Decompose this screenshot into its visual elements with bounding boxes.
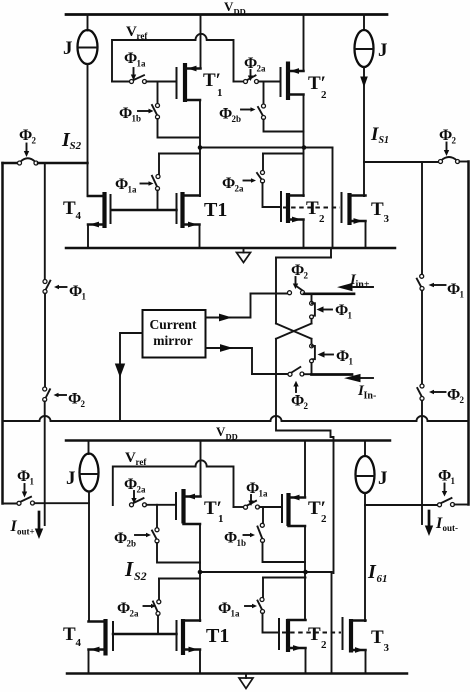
svg-text:J: J xyxy=(63,38,73,59)
svg-text:Φ: Φ xyxy=(219,106,232,123)
transistor T'2 bottom xyxy=(282,493,305,526)
label T2 xyxy=(306,198,325,225)
svg-text:Φ: Φ xyxy=(69,283,82,300)
wire cross network to bottom cell (jog at rail) xyxy=(276,374,334,573)
wire memory-node link left bottom xyxy=(159,578,200,580)
svg-text:V: V xyxy=(216,424,226,439)
svg-text:3: 3 xyxy=(384,642,390,654)
label phi_1b with arrow xyxy=(119,105,154,124)
switch phi_1 inner-right xyxy=(417,274,424,290)
label I_S2 bottom xyxy=(124,557,147,583)
switch phi_2a lower (T1/T4 gate sampling, bottom) xyxy=(153,579,161,635)
svg-text:J: J xyxy=(66,468,76,489)
label I_S1 top xyxy=(370,124,389,146)
svg-text:T: T xyxy=(308,624,321,645)
label phi_1b bottom with arrow xyxy=(224,530,255,549)
label T4 xyxy=(63,198,82,222)
label phi_2 inner-left with arrow xyxy=(54,391,86,410)
svg-text:out-: out- xyxy=(443,523,459,533)
svg-text:Φ: Φ xyxy=(19,127,32,144)
transistor T1 bottom xyxy=(177,619,201,674)
wire memory node bus (T'1 drain to output corner) xyxy=(200,147,333,149)
label I_in+ xyxy=(349,272,370,291)
transistor T2 bottom xyxy=(279,618,306,674)
output arrow I_out- xyxy=(425,511,433,536)
transistor T'1 bottom xyxy=(176,489,201,524)
wire gate bus T4-T1 xyxy=(111,209,177,212)
label phi_1 upper pass with arrow xyxy=(317,302,353,321)
label T'2 xyxy=(308,73,327,101)
wire I_in+ trunk xyxy=(304,292,354,295)
label V_ref top xyxy=(126,24,148,41)
ground symbol top cell xyxy=(237,248,251,263)
wire dashed T2 gate to T3 gate bottom xyxy=(282,632,341,634)
switch phi_1b (gate-drain, vertical) xyxy=(152,82,200,138)
transistor T'2 xyxy=(281,62,304,101)
svg-text:ref: ref xyxy=(136,457,148,467)
label phi_1 bottom-left with arrow xyxy=(17,468,35,498)
label phi_2 top-right with arrow xyxy=(439,127,457,156)
label phi_2a bottom with arrow xyxy=(124,476,146,504)
svg-text:out+: out+ xyxy=(17,527,35,537)
switch phi_2a (V_ref to T'2 gate) xyxy=(234,75,281,83)
svg-text:1: 1 xyxy=(460,290,465,300)
wire inner-right column lower to I_out- xyxy=(421,401,423,525)
transistor T3 bottom xyxy=(343,617,366,674)
wire current mirror lower output (arrow right) xyxy=(206,344,253,374)
svg-text:2: 2 xyxy=(81,399,86,409)
svg-text:1: 1 xyxy=(82,292,87,302)
svg-text:Φ: Φ xyxy=(447,387,460,404)
label T3 bottom xyxy=(371,627,390,654)
label T3 xyxy=(371,199,390,225)
label phi_1 bottom-right with arrow xyxy=(438,468,456,497)
svg-text:DD: DD xyxy=(226,432,238,442)
switch phi_2 middle-top xyxy=(251,285,305,295)
label T2 bottom xyxy=(308,624,327,651)
pass switch phi_1 lower xyxy=(310,339,315,375)
svg-text:1: 1 xyxy=(218,513,224,525)
svg-text:S1: S1 xyxy=(379,135,390,146)
svg-text:In-: In- xyxy=(364,391,377,402)
node dot at T2 drain chain bottom xyxy=(303,570,308,575)
svg-text:Φ: Φ xyxy=(246,480,259,497)
label phi_1a lower with arrow xyxy=(115,176,154,195)
wire cross left vertical upper xyxy=(275,294,277,324)
label VDD bottom xyxy=(216,424,238,442)
svg-text:Φ: Φ xyxy=(291,393,304,410)
transistor T2 xyxy=(281,191,304,248)
transistor T1 xyxy=(177,192,200,248)
svg-text:Φ: Φ xyxy=(336,348,349,365)
svg-text:1: 1 xyxy=(349,357,354,367)
svg-text:J: J xyxy=(378,468,388,489)
wire left edge column xyxy=(1,163,4,504)
label I_S2 top xyxy=(61,129,82,152)
source rail bottom cell xyxy=(67,672,407,675)
wire J to T3 drain (node I_S1 bottom) xyxy=(364,493,366,621)
node dot at T2 drain chain xyxy=(302,145,307,150)
label VDD top xyxy=(224,0,246,17)
svg-text:T: T xyxy=(306,198,319,219)
wire VDD to T'2 source bottom xyxy=(304,441,306,498)
switch phi_2 top-right (output to right column) xyxy=(364,157,469,164)
svg-text:Φ: Φ xyxy=(439,127,452,144)
label V_ref bottom xyxy=(125,450,147,467)
label T'1 xyxy=(203,70,223,99)
switch phi_2a lower (T2 gate sampling) xyxy=(257,154,281,208)
label phi_2b bottom with arrow xyxy=(114,530,151,549)
svg-text:1: 1 xyxy=(217,87,223,99)
svg-text:1a: 1a xyxy=(137,59,147,69)
wire T'2 drain chain down to T2 drain xyxy=(303,95,305,197)
svg-text:2: 2 xyxy=(32,136,37,146)
svg-text:2: 2 xyxy=(304,271,309,281)
wire inner-left column lower to I_out+ xyxy=(44,402,46,526)
current mirror box xyxy=(143,310,206,358)
annotation arrow I_in+ xyxy=(337,283,373,291)
wire V_ref bus (hump over T'1 source line) xyxy=(112,34,234,82)
label phi_2a with arrow xyxy=(244,55,266,81)
wire memory node bus bottom xyxy=(200,571,332,573)
wire VDD to T'1 source bottom xyxy=(200,441,202,497)
svg-text:Φ: Φ xyxy=(124,476,137,493)
svg-text:2: 2 xyxy=(319,213,325,225)
svg-text:Φ: Φ xyxy=(224,530,237,547)
svg-text:Current: Current xyxy=(150,317,197,332)
label phi_2 middle-top with arrow xyxy=(291,262,309,289)
svg-text:2: 2 xyxy=(321,89,327,101)
svg-text:Φ: Φ xyxy=(124,50,137,67)
svg-text:mirror: mirror xyxy=(153,333,192,348)
wire J to T4 drain (node I_S2) xyxy=(87,64,89,196)
wire top-cell output to cross network (jog at rail) xyxy=(276,249,331,294)
wire cell output corner down to rail xyxy=(332,148,334,249)
svg-text:T: T xyxy=(371,199,384,220)
svg-text:Φ: Φ xyxy=(114,530,127,547)
svg-text:Φ: Φ xyxy=(218,600,231,617)
wire VDD to T'2 source xyxy=(303,15,305,72)
svg-text:1a: 1a xyxy=(128,185,138,195)
svg-text:1: 1 xyxy=(30,477,35,487)
wire T'1 drain chain down to T1 drain bottom xyxy=(199,524,201,621)
wire cross left vertical lower xyxy=(275,339,277,374)
label I_in- xyxy=(357,383,376,402)
svg-text:Φ: Φ xyxy=(68,391,81,408)
transistor T4 bottom xyxy=(89,619,114,674)
switch phi_2 top-left (output to left column) xyxy=(3,158,88,165)
label T'2 bottom xyxy=(308,498,327,525)
source rail top cell xyxy=(66,247,395,250)
wire inner-left column middle xyxy=(44,294,46,388)
svg-text:1: 1 xyxy=(348,311,353,321)
svg-text:DD: DD xyxy=(234,7,246,17)
wire J to T3 drain with current arrow (node I_S1) xyxy=(360,67,368,196)
svg-text:4: 4 xyxy=(76,210,82,222)
transistor T3 xyxy=(342,192,366,248)
switch phi_1a lower (T2 gate sampling, bottom) xyxy=(258,578,280,633)
label I_out- xyxy=(435,515,458,533)
label phi_1a with arrow xyxy=(124,50,146,81)
svg-text:2a: 2a xyxy=(235,184,245,194)
switch phi_1b (gate-drain vertical, bottom) xyxy=(258,507,306,562)
wire right edge column xyxy=(467,162,470,505)
label phi_2 top-left with arrow xyxy=(19,127,37,157)
wire gate bus T4-T1 bottom xyxy=(113,633,177,636)
wire I_in- trunk xyxy=(312,373,353,376)
switch phi_2a (V_ref to T'1 gate, bottom) xyxy=(130,498,177,507)
switch phi_1 inner-left xyxy=(43,280,50,294)
svg-text:Φ: Φ xyxy=(291,262,304,279)
svg-text:Φ: Φ xyxy=(222,175,235,192)
svg-text:Φ: Φ xyxy=(438,468,451,485)
svg-text:T: T xyxy=(63,198,76,219)
wire current mirror input from feedback bus (arrow down) xyxy=(115,333,143,421)
label phi_1 inner-right with arrow xyxy=(429,281,465,300)
svg-text:T: T xyxy=(63,624,76,645)
svg-text:T1: T1 xyxy=(204,199,227,221)
svg-text:2: 2 xyxy=(321,513,327,525)
wire inner-right column middle xyxy=(421,291,423,385)
svg-text:2: 2 xyxy=(321,639,327,651)
svg-text:4: 4 xyxy=(76,637,82,649)
svg-text:1a: 1a xyxy=(259,489,269,499)
switch phi_2b (gate-drain vertical, bottom) xyxy=(152,505,200,563)
switch phi_1a (V_ref to T'2 gate, bottom) xyxy=(234,501,283,509)
svg-text:2: 2 xyxy=(460,395,465,405)
annotation arrow I_in- xyxy=(344,374,373,382)
label phi_1 inner-left with arrow xyxy=(54,283,87,302)
wire cross diagonal A xyxy=(276,324,312,339)
switch phi_2b (gate-drain, vertical) xyxy=(258,82,304,132)
wire dashed T2 gate to T3 gate xyxy=(283,207,340,209)
svg-text:2b: 2b xyxy=(127,539,137,549)
wire cross diagonal B xyxy=(276,324,312,339)
VDD rail top xyxy=(66,13,387,16)
svg-text:J: J xyxy=(378,40,388,61)
svg-text:I: I xyxy=(367,561,377,583)
label T'1 bottom xyxy=(204,498,224,525)
switch phi_2 middle-bottom xyxy=(252,367,312,376)
switch phi_1 bottom-right (right column to J branch) xyxy=(365,498,469,507)
svg-text:2a: 2a xyxy=(137,485,147,495)
svg-text:I: I xyxy=(124,557,134,581)
svg-text:3: 3 xyxy=(384,213,390,225)
current source J top-left xyxy=(78,15,98,65)
svg-text:S2: S2 xyxy=(134,569,147,583)
wire T'2 drain chain down to T2 drain bottom xyxy=(304,526,306,620)
label phi_2 inner-right with arrow xyxy=(429,387,465,406)
wire memory-node link right bottom xyxy=(263,577,306,579)
svg-text:1: 1 xyxy=(451,476,456,486)
svg-text:1a: 1a xyxy=(231,609,241,619)
svg-text:2b: 2b xyxy=(232,114,242,124)
wire V_ref bus bottom (hump over T'1 source line) xyxy=(113,460,234,507)
wire feedback bus (humps over columns and cross line) xyxy=(3,416,469,421)
svg-text:Φ: Φ xyxy=(115,176,128,193)
switch phi_1a lower (T1/T4 gate sampling) xyxy=(152,154,160,211)
svg-text:2a: 2a xyxy=(257,64,267,74)
ground symbol bottom cell xyxy=(239,674,253,689)
wire inner-right column upper xyxy=(421,162,423,275)
switch phi_2 inner-right xyxy=(417,384,424,401)
svg-text:Φ: Φ xyxy=(119,105,132,122)
wire T'1 drain chain down to T1 drain xyxy=(199,100,201,196)
label phi_1 lower pass with arrow xyxy=(318,348,354,367)
svg-text:2a: 2a xyxy=(130,609,140,619)
wire inner-left column upper xyxy=(44,163,46,280)
label phi_2 middle-bottom with arrow xyxy=(291,381,309,411)
svg-text:Φ: Φ xyxy=(447,281,460,298)
VDD rail bottom cell xyxy=(66,439,390,442)
svg-text:T1: T1 xyxy=(206,625,229,647)
output arrow I_out+ xyxy=(35,512,43,539)
svg-text:Φ: Φ xyxy=(17,468,30,485)
wire cell output corner down to rail bottom xyxy=(331,572,333,674)
label phi_1a bottom with arrow xyxy=(246,480,268,506)
transistor T'1 xyxy=(177,63,201,102)
svg-text:Φ: Φ xyxy=(117,600,130,617)
svg-text:V: V xyxy=(125,450,136,466)
svg-text:1b: 1b xyxy=(237,538,247,548)
label T4 bottom xyxy=(63,624,82,649)
svg-text:Φ: Φ xyxy=(335,302,348,319)
current source J bottom-right xyxy=(356,441,375,494)
wire memory-node link right xyxy=(263,153,304,155)
svg-text:S2: S2 xyxy=(70,140,82,152)
svg-text:2: 2 xyxy=(452,136,457,146)
label phi_2a lower bottom with arrow xyxy=(117,600,156,619)
wire J to T4 drain (node I_S2 bottom) xyxy=(88,492,90,622)
svg-text:61: 61 xyxy=(377,573,388,585)
wire memory-node link left xyxy=(159,153,200,155)
current source J bottom-left xyxy=(80,441,99,492)
switch phi_1a (V_ref to T'1 gate) xyxy=(112,75,177,83)
node dot at T1 drain chain bottom xyxy=(198,570,203,575)
svg-text:2: 2 xyxy=(304,401,309,411)
switch phi_2 inner-left xyxy=(43,387,50,402)
label I_S1 bottom xyxy=(367,561,388,585)
wire VDD to T'1 source xyxy=(200,15,202,69)
svg-text:V: V xyxy=(224,0,234,14)
transistor T4 xyxy=(88,192,111,248)
svg-text:1b: 1b xyxy=(132,114,142,124)
label phi_2b with arrow xyxy=(219,106,256,125)
switch phi_1 bottom-left (left column to J branch) xyxy=(3,497,90,506)
svg-text:in+: in+ xyxy=(356,280,370,291)
current source J top-right xyxy=(355,15,374,68)
label phi_1a lower bottom with arrow xyxy=(218,600,257,619)
wire current mirror upper output (arrow right) xyxy=(206,294,251,322)
svg-text:V: V xyxy=(126,24,137,40)
pass switch phi_1 upper xyxy=(310,294,315,324)
node dot at T1 drain chain xyxy=(198,145,203,150)
svg-text:T: T xyxy=(371,627,384,648)
label phi_2a lower with arrow xyxy=(222,175,256,194)
label I_out+ xyxy=(10,518,35,537)
